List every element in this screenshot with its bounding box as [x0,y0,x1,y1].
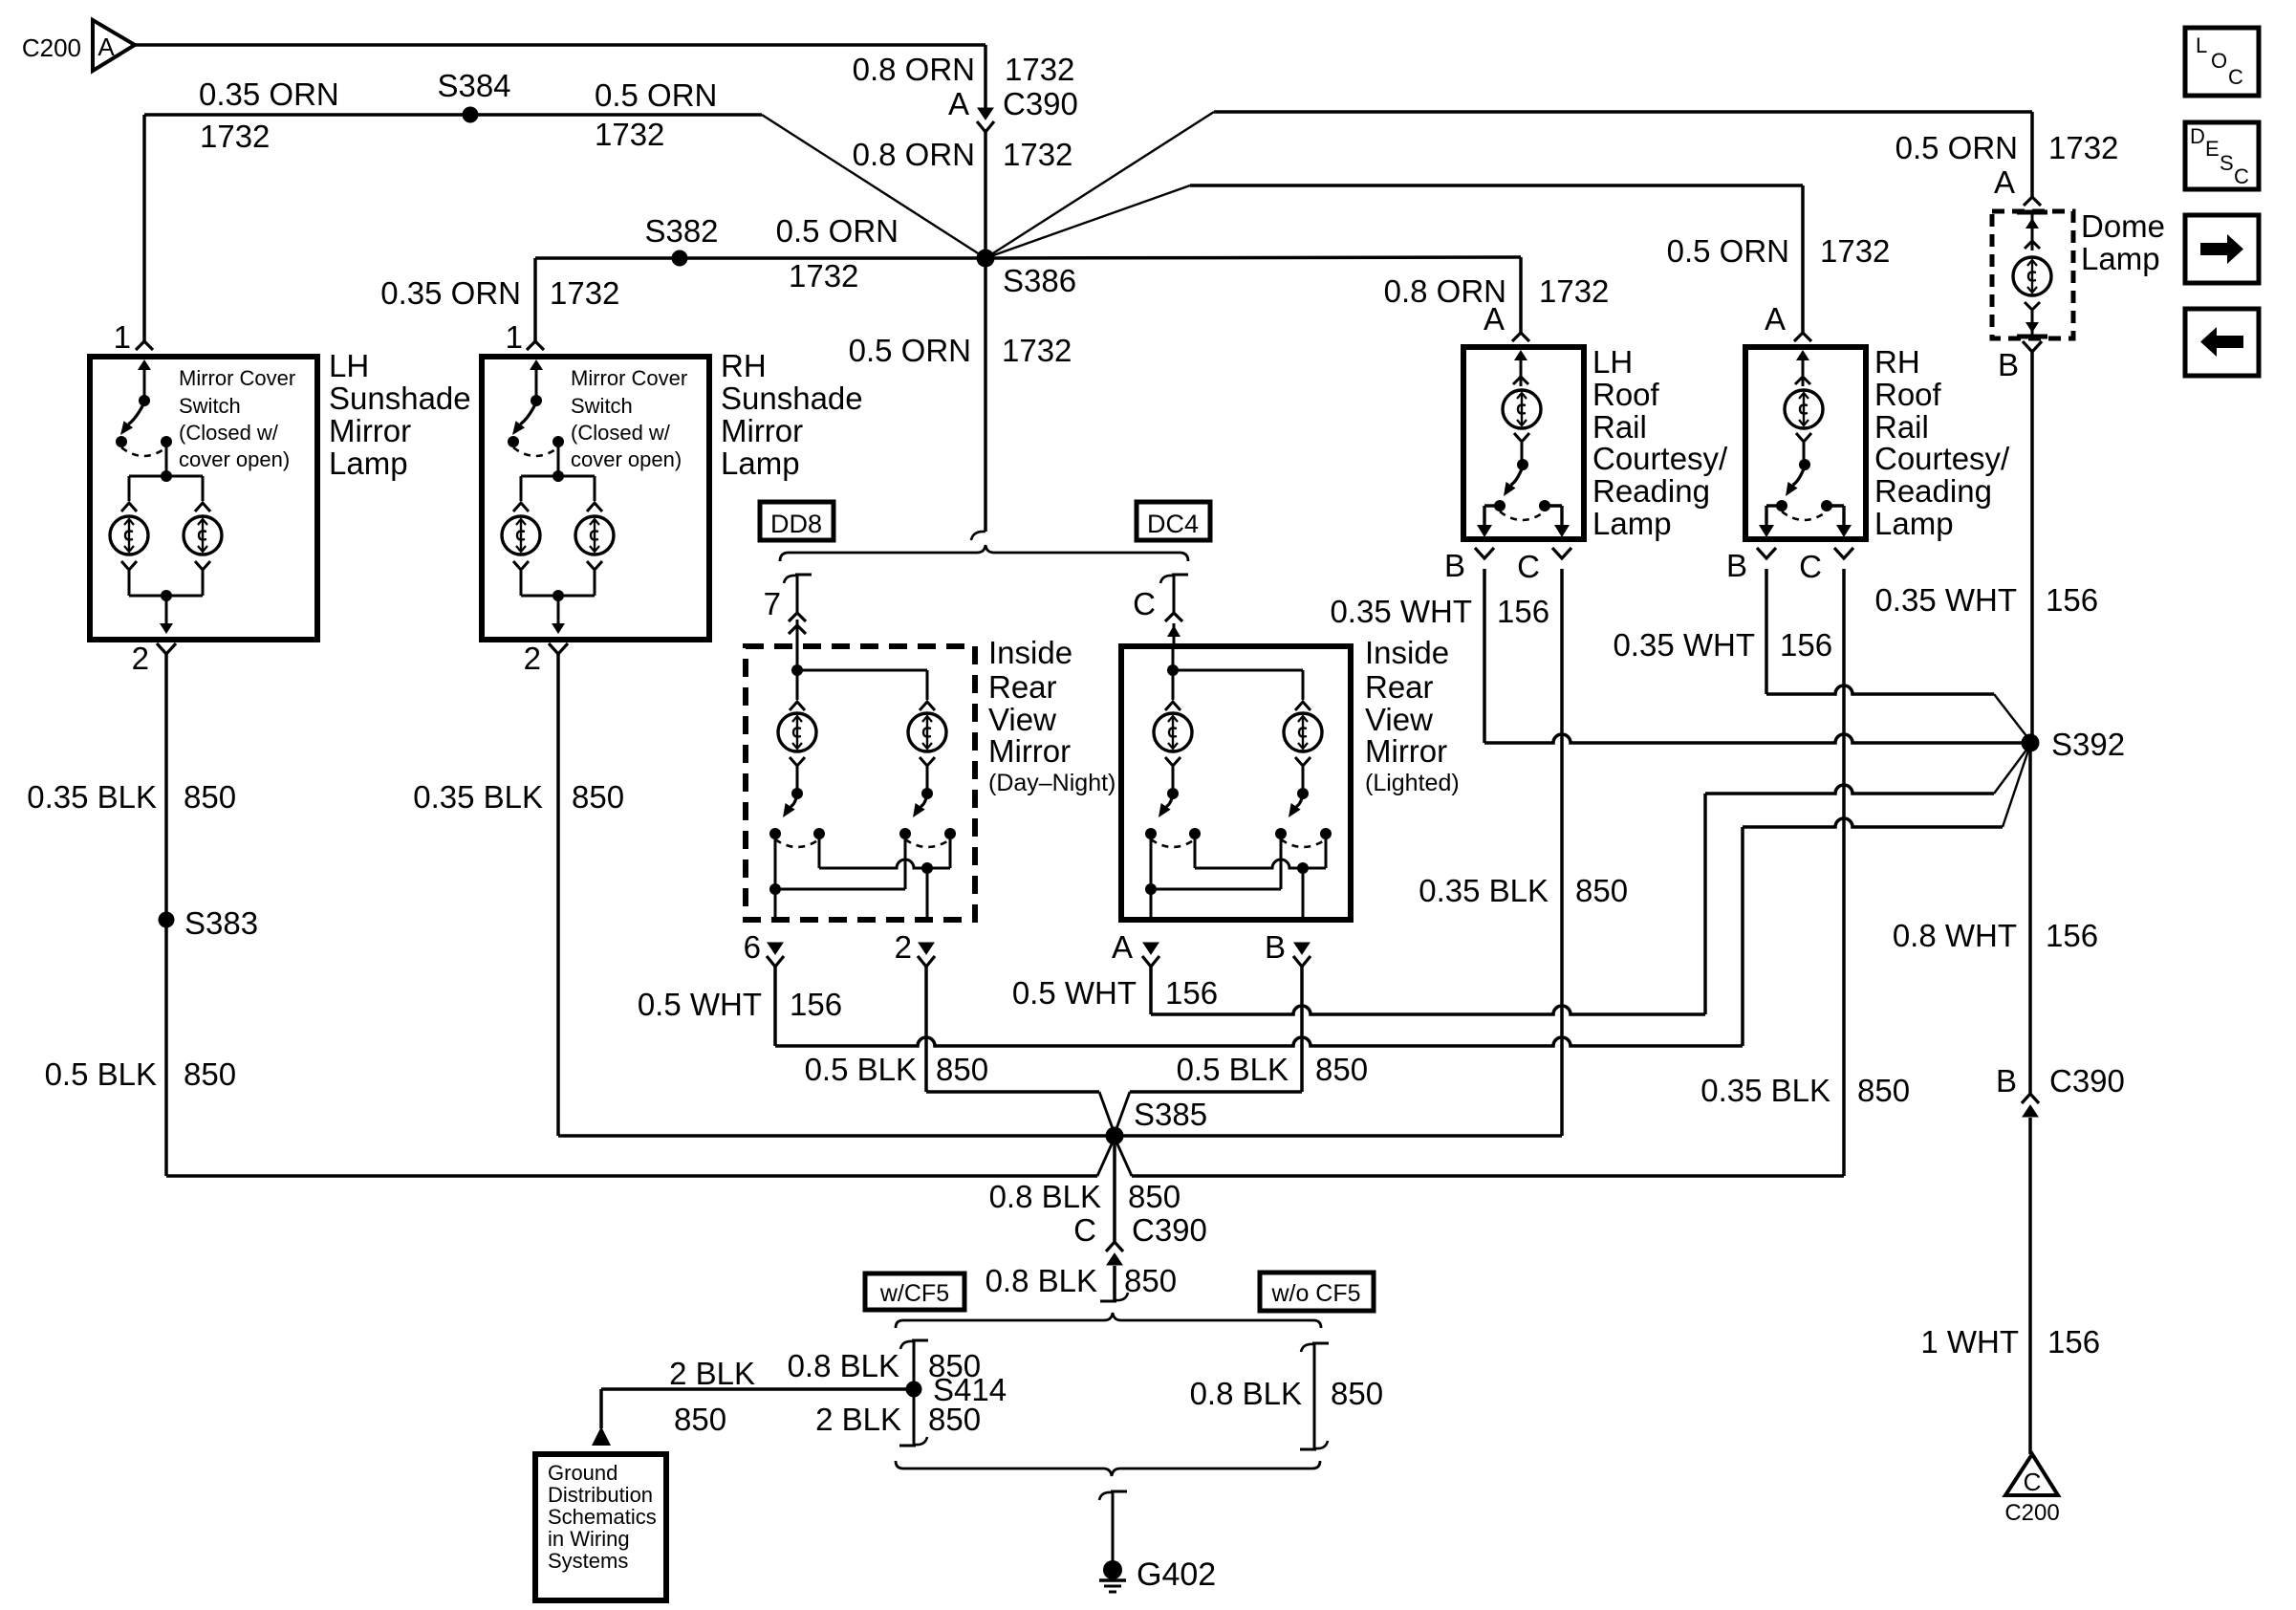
connector dome lamp pin A [1994,164,2041,206]
svg-text:G402: G402 [1137,1556,1216,1593]
svg-text:0.5 ORN: 0.5 ORN [1895,130,2018,165]
svg-text:0.35 BLK: 0.35 BLK [413,779,543,815]
svg-text:0.8 BLK: 0.8 BLK [788,1348,899,1383]
svg-text:C: C [2228,65,2243,89]
switch right (Lighted) [1275,757,1332,847]
label 0.8 BLK 850 (lower) [986,1263,1177,1298]
svg-text:LH: LH [329,348,369,383]
svg-text:0.5 BLK: 0.5 BLK [805,1052,917,1087]
svg-text:0.8 ORN: 0.8 ORN [853,52,975,87]
lamp bulb left (RH) [502,516,540,555]
label Inside Rear View Mirror (Lighted) [1365,635,1460,796]
svg-text:(Closed w/: (Closed w/ [571,421,671,445]
svg-text:S392: S392 [2051,727,2125,762]
component box RH Sunshade Mirror Lamp [482,357,709,640]
wire 0.35 BLK 850 bus S385 to RH roof C [1115,1138,1844,1176]
connector pin 2 LH sunshade [132,641,176,676]
svg-text:Mirror Cover: Mirror Cover [571,366,687,390]
connector C200 pin C (page-out triangle) [2005,1454,2058,1496]
wire BLK 850 bus RH sunshade to LH roof C through S385 [558,1134,1562,1138]
svg-text:1732: 1732 [550,275,619,311]
label 1 WHT 156 [1920,1324,2100,1360]
svg-text:Rail: Rail [1874,409,1929,445]
label Dome Lamp [2081,208,2165,276]
splice S384 [463,107,479,123]
svg-text:850: 850 [674,1402,726,1437]
svg-text:S383: S383 [184,905,258,941]
connector DC4 pin C lead-in [1133,575,1188,646]
svg-text:Rail: Rail [1592,409,1647,445]
svg-text:1732: 1732 [2048,130,2118,165]
wire 0.8 ORN 1732 from C390-A to S386 [984,129,987,258]
label RH Sunshade Mirror Lamp [721,348,863,481]
svg-text:0.35 ORN: 0.35 ORN [380,275,521,311]
svg-text:Lamp: Lamp [329,446,408,481]
svg-text:0.8 BLK: 0.8 BLK [1190,1376,1302,1411]
label A C390 [948,86,1078,121]
svg-text:A: A [1765,301,1786,337]
svg-text:0.5 ORN: 0.5 ORN [849,333,971,368]
svg-text:850: 850 [928,1402,981,1437]
switch left (Day-Night) [769,757,825,847]
wire 0.8 WHT 156 from S392 to C390-B [2028,743,2032,1094]
component box LH Roof Rail Courtesy/Reading Lamp [1463,347,1584,539]
svg-text:0.8 BLK: 0.8 BLK [989,1179,1101,1214]
svg-text:A: A [1112,929,1133,965]
svg-text:850: 850 [1331,1376,1383,1411]
connector DD8 pin 7 lead-in [764,575,812,646]
svg-text:Rear: Rear [1365,669,1434,705]
wire stub w/o CF5: 0.8 BLK 850 [1300,1343,1329,1449]
connector C390 pin C [1106,1242,1123,1265]
wire: feed splits to lamps (Lighted) [1165,646,1310,710]
ground G402 [1099,1560,1126,1592]
switch (RH) [1776,433,1832,520]
svg-text:Reading: Reading [1874,473,1992,509]
svg-text:RH: RH [1874,344,1920,380]
wire stub w/CF5: 0.8 BLK / 2 BLK 850 with splice S414 [899,1340,928,1446]
text: Mirror Cover Switch (RH) [571,366,687,471]
wire 0.5 WHT 156 from DC4 pin A to S392 [1151,745,2030,1014]
connector pin 1 RH sunshade [527,341,544,350]
svg-text:RH: RH [721,348,767,383]
connector DD8 pin 6 [744,929,784,967]
label 0.35 WHT 156 (dome B) [1874,582,2098,618]
connector pin 1 LH sunshade [136,341,153,350]
label S385 [1134,1097,1207,1132]
label 0.35 BLK 850 (LH) [27,779,236,815]
svg-text:0.35 WHT: 0.35 WHT [1330,594,1472,629]
label 0.5 ORN 1732 (down) [849,333,1072,368]
svg-text:S386: S386 [1003,263,1076,298]
label LH Sunshade Mirror Lamp [329,348,471,481]
label 0.5 BLK 850 (pin 2) [805,1052,988,1087]
label RH Roof Rail Courtesy/Reading Lamp [1874,344,2010,541]
text: Mirror Cover Switch (LH) [179,366,295,471]
lamp exit (dome) [2017,302,2047,337]
svg-text:156: 156 [2047,1324,2100,1360]
component box Ground Distribution Schematics in Wiring Systems [535,1454,666,1600]
wire 0.8 BLK 850 from S385 to C390-C [1113,1136,1116,1242]
svg-text:(Lighted): (Lighted) [1365,770,1460,796]
label 0.35 BLK 850 (RH) [413,779,624,815]
svg-text:LH: LH [1592,344,1633,380]
svg-text:2: 2 [895,929,912,965]
svg-text:850: 850 [1857,1073,1910,1108]
svg-text:Schematics: Schematics [548,1505,657,1529]
switch: mirror cover switch (LH) [116,359,172,456]
label 0.8 ORN 1732 (above C390) [853,52,1075,87]
svg-text:E: E [2205,137,2220,161]
svg-text:Switch: Switch [571,394,633,418]
legend box LOC [2185,28,2259,96]
svg-text:C390: C390 [2049,1063,2125,1099]
label 0.35 ORN 1732 [380,275,619,311]
component box Inside Rear View Mirror (Lighted) [1121,646,1351,920]
svg-text:L: L [2196,33,2207,57]
svg-text:1732: 1732 [200,119,270,154]
label 0.8 ORN 1732 (below C390) [853,137,1073,172]
wire 0.5 BLK 850 from DC4 pin B to S385 [1115,966,1302,1134]
svg-text:Mirror: Mirror [988,733,1071,769]
lamp bulb left (Lighted) [1154,713,1192,751]
connector DC4 pin B [1265,929,1310,967]
svg-text:Distribution: Distribution [548,1483,653,1507]
brace grouping CF5 alternatives (top) [896,1313,1321,1328]
lamp feed arrow (RH) [1795,350,1810,386]
lamp bulb left (LH) [110,516,148,555]
svg-text:A: A [1994,164,2015,200]
wire 0.5 WHT 156 from DD8 pin 6 to S392 [775,745,2030,1046]
svg-text:Ground: Ground [548,1461,617,1485]
component box Inside Rear View Mirror (Day-Night) [746,646,975,920]
svg-text:Lamp: Lamp [721,446,800,481]
label 0.5 WHT 156 (pin 6) [638,987,842,1022]
connector pins B and C (RH roof rail) [1726,548,1853,584]
svg-text:Sunshade: Sunshade [721,381,863,416]
svg-text:0.8 WHT: 0.8 WHT [1893,918,2017,953]
label 2 BLK 850 (horizontal) [669,1356,755,1437]
svg-text:156: 156 [1497,594,1549,629]
connector dome lamp pin B [1998,341,2042,382]
label 0.8 ORN 1732 (LH roof) [1384,273,1610,309]
svg-text:B: B [1444,548,1465,583]
svg-text:850: 850 [184,1056,236,1092]
svg-text:0.5 WHT: 0.5 WHT [638,987,762,1022]
label 0.5 BLK 850 (LH) [45,1056,236,1092]
label S414 [933,1372,1007,1407]
svg-text:0.5 BLK: 0.5 BLK [45,1056,157,1092]
wire: lamps to pin 2 (LH) [121,561,210,634]
wire 0.8 ORN 1732 from C200-A to C390-A [135,45,986,116]
svg-text:1: 1 [114,319,131,355]
lamp bulb right (LH) [184,516,222,555]
label Inside Rear View Mirror (Day-Night) [988,635,1116,796]
lamp bulb right (Lighted) [1284,713,1322,751]
svg-text:850: 850 [1128,1179,1180,1214]
svg-text:w/CF5: w/CF5 [879,1280,949,1307]
svg-text:S384: S384 [437,68,510,103]
label C C390 [1073,1212,1207,1248]
svg-text:1732: 1732 [1820,233,1890,269]
splice S392 [2022,734,2040,752]
svg-text:B: B [1998,347,2019,382]
lamp bulb left (Day-Night) [778,713,816,751]
connector C200 pin A (page-in triangle) [93,20,135,71]
wire: switch to lamps (LH) [121,442,210,511]
svg-text:Reading: Reading [1592,473,1710,509]
svg-text:850: 850 [572,779,624,815]
wire 2 BLK 850 from S414 to ground schematic ref [601,1389,914,1428]
svg-text:DD8: DD8 [770,510,822,538]
connector DC4 pin A [1112,929,1159,967]
svg-text:cover open): cover open) [179,447,290,471]
wire: pin leads (Lighted) [1151,834,1303,920]
brace grouping DD8/DC4 connectors [780,545,1188,561]
svg-text:C390: C390 [1003,86,1078,121]
connector C390 pin B [2022,1094,2039,1117]
splice S386 [977,250,995,268]
label 0.5 WHT 156 (pin A) [1012,975,1218,1011]
splice S383 [159,912,175,928]
label 0.5 ORN 1732 [776,213,899,294]
label B C390 [1996,1063,2125,1099]
wire 0.35 BLK 850 from RH roof rail C to S385 bus [1842,569,1846,1176]
component box Dome Lamp (dashed) [1992,211,2073,338]
lamp feed arrow (LH) [1513,350,1528,386]
splice S385 [1106,1127,1124,1145]
svg-text:A: A [948,86,969,121]
svg-text:0.35 ORN: 0.35 ORN [199,76,339,112]
wire: pin leads (Day-Night) [775,834,927,920]
svg-text:0.5 WHT: 0.5 WHT [1012,975,1137,1011]
svg-text:S: S [2220,151,2234,175]
wire: lamps to pin 2 (RH) [513,561,602,634]
wire 1 WHT 156 from C390-B to C200-C [2028,1118,2032,1454]
label S383 [184,905,258,941]
svg-text:(Day–Night): (Day–Night) [988,770,1116,796]
switch right (Day-Night) [899,757,956,847]
wire 0.8 BLK 850 below C390-C [1100,1266,1128,1301]
svg-text:Systems: Systems [548,1549,628,1573]
svg-text:850: 850 [936,1052,988,1087]
svg-text:0.5 BLK: 0.5 BLK [1177,1052,1289,1087]
svg-text:Mirror: Mirror [1365,733,1447,769]
svg-text:0.8 BLK: 0.8 BLK [986,1263,1097,1298]
svg-text:B: B [1265,929,1286,965]
svg-text:B: B [1996,1063,2017,1099]
label LH Roof Rail Courtesy/Reading Lamp [1592,344,1728,541]
label S384 [437,68,510,103]
label G402 [1137,1556,1216,1593]
svg-text:View: View [1365,702,1433,737]
label 0.35 BLK 850 (RH C) [1700,1073,1910,1108]
svg-text:1 WHT: 1 WHT [1920,1324,2019,1360]
svg-text:DC4: DC4 [1147,510,1199,538]
lamp bulb right (RH) [575,516,614,555]
connector DD8 pin 2 [895,929,935,967]
wire 0.5 BLK 850 bus LH sunshade to S385 [166,1138,1115,1176]
wire 0.5 ORN 1732 S386 to dome lamp A [986,112,2032,258]
wire 0.8 ORN 1732 S386 to LH roof rail lamp A [986,257,1521,333]
svg-text:2 BLK: 2 BLK [815,1402,901,1437]
wire 0.5 ORN 1732 S386 to RH roof rail lamp A [986,185,1803,333]
svg-text:156: 156 [2046,582,2098,618]
component box LH Sunshade Mirror Lamp [90,357,317,640]
wire 0.35 BLK 850 from RH sunshade pin 2 to S385 bus [556,654,560,1136]
component box RH Roof Rail Courtesy/Reading Lamp [1745,347,1866,539]
svg-text:850: 850 [1315,1052,1368,1087]
svg-text:7: 7 [764,586,781,621]
wire 0.5 ORN 1732 S386 down to DD8/DC4 brace [984,258,987,532]
svg-text:0.5 ORN: 0.5 ORN [776,213,899,249]
label 0.8 BLK 850 (w/o CF5) [1190,1376,1383,1411]
svg-text:Dome: Dome [2081,208,2165,244]
svg-text:1732: 1732 [1005,52,1074,87]
svg-text:0.35 BLK: 0.35 BLK [1419,873,1549,908]
lamp bulb right (Day-Night) [908,713,946,751]
svg-text:Sunshade: Sunshade [329,381,471,416]
wire: contact links (Lighted) [1145,834,1326,895]
svg-text:A: A [97,33,115,61]
svg-text:1732: 1732 [789,258,858,294]
svg-text:850: 850 [1575,873,1628,908]
wire to G402 [1099,1491,1127,1562]
label 0.5 BLK 850 (pin B) [1177,1052,1368,1087]
label 0.35 WHT 156 (LH B) [1330,594,1549,629]
wire 0.35 WHT 156 from dome lamp B to S392 [2030,352,2034,743]
svg-text:w/o CF5: w/o CF5 [1270,1280,1360,1307]
label box w/o CF5 [1260,1273,1374,1311]
svg-text:B: B [1726,548,1747,583]
svg-text:2: 2 [132,641,149,676]
label 0.5 ORN 1732 (RH roof) [1667,233,1891,269]
svg-text:Mirror: Mirror [721,413,803,448]
label 0.35 ORN 1732 [199,76,339,154]
wire 0.35 WHT 156 from RH roof rail B to S392 [1766,569,2030,741]
label box w/CF5 [865,1273,964,1310]
label 0.8 WHT 156 [1893,918,2098,953]
wire: contacts to pins B/C (LH) [1477,506,1570,537]
svg-text:C: C [1133,586,1156,621]
lamp bulb (LH) [1503,390,1541,428]
svg-text:0.35 WHT: 0.35 WHT [1874,582,2017,618]
svg-text:1732: 1732 [1002,333,1072,368]
svg-text:Rear: Rear [988,669,1057,705]
svg-text:0.35 WHT: 0.35 WHT [1613,627,1755,663]
label 2 BLK 850 (w/CF5) [815,1402,981,1437]
svg-text:0.5 ORN: 0.5 ORN [595,77,717,113]
label S382 [644,213,718,249]
svg-text:1732: 1732 [1539,273,1609,309]
svg-text:in Wiring: in Wiring [548,1527,630,1551]
label S392 [2051,727,2125,762]
switch (LH) [1494,433,1550,520]
svg-text:D: D [2190,124,2205,148]
svg-text:2 BLK: 2 BLK [669,1356,755,1391]
label 0.5 ORN 1732 (dome) [1895,130,2119,165]
switch: mirror cover switch (RH) [508,359,564,456]
svg-text:Courtesy/: Courtesy/ [1592,441,1728,476]
wire 0.35/0.5 BLK 850 from LH sunshade pin 2 to S385 bus [164,654,168,1176]
svg-text:Lamp: Lamp [2081,241,2160,276]
svg-text:1: 1 [506,319,523,355]
reference triangle to Ground Distribution Schematics [592,1426,611,1446]
connector ID box DC4 [1137,502,1210,540]
svg-text:C: C [2234,164,2249,188]
svg-text:6: 6 [744,929,761,965]
svg-text:Switch: Switch [179,394,241,418]
svg-text:2: 2 [524,641,541,676]
label 0.8 BLK 850 (w/CF5) [788,1348,981,1383]
connector RH roof rail pin A [1765,301,1811,341]
pin 1 label (RH) [506,319,523,355]
legend box left arrow [2185,309,2259,376]
svg-text:Mirror: Mirror [329,413,411,448]
svg-text:Inside: Inside [988,635,1072,670]
svg-text:Lamp: Lamp [1874,506,1954,541]
label 0.8 BLK 850 [989,1179,1180,1214]
wire 0.5 BLK 850 from DD8 pin 2 to S385 [926,966,1115,1134]
svg-text:C: C [1799,549,1822,584]
svg-text:0.8 ORN: 0.8 ORN [853,137,975,172]
svg-text:156: 156 [1165,975,1218,1011]
svg-text:A: A [1484,301,1505,337]
connector C390 pin A [977,108,994,132]
label C200 (bottom) [2004,1500,2059,1526]
wire: feed splits to lamps (Day-Night) [790,646,935,710]
wire 0.35 BLK 850 from LH roof rail C to S385 bus [1560,569,1564,1136]
svg-text:C200: C200 [22,33,81,62]
connector pin 2 RH sunshade [524,641,568,676]
switch left (Lighted) [1145,757,1201,847]
connector LH roof rail pin A [1484,301,1529,341]
label S386 [1003,263,1076,298]
brace grouping CF5 alternatives (bottom) [896,1461,1320,1476]
svg-text:C: C [2024,1468,2042,1496]
svg-text:1732: 1732 [1003,137,1072,172]
svg-text:C: C [1073,1212,1096,1248]
legend box right arrow [2185,215,2259,283]
connector ID box DD8 [760,502,834,540]
svg-text:C390: C390 [1132,1212,1207,1248]
label 0.35 WHT 156 (RH B) [1613,627,1832,663]
wire 0.35/0.5 ORN 1732 via S382 to RH sunshade mirror lamp pin 1 [535,258,986,341]
connector pins B and C (LH roof rail) [1444,548,1571,584]
wire: contacts to pins B/C (RH) [1759,506,1852,537]
svg-text:0.35 BLK: 0.35 BLK [27,779,157,815]
label C200 [22,33,81,62]
svg-text:0.35 BLK: 0.35 BLK [1700,1073,1830,1108]
svg-text:cover open): cover open) [571,447,682,471]
wire 0.35 WHT 156 from LH roof rail B to S392 [1484,569,2030,743]
svg-text:C: C [1517,549,1540,584]
wire: contact links (Day-Night) [769,834,950,895]
svg-text:Mirror Cover: Mirror Cover [179,366,295,390]
lamp bulb (dome) [2013,257,2051,295]
lamp bulb (RH) [1785,390,1823,428]
svg-text:156: 156 [2046,918,2098,953]
svg-text:156: 156 [1780,627,1832,663]
wire 0.35/0.5 ORN 1732 via S384 to S386 and LH sunshade mirror lamp pin 1 [144,115,986,341]
svg-text:1732: 1732 [595,117,664,152]
svg-text:850: 850 [1124,1263,1177,1298]
svg-text:Roof: Roof [1874,377,1942,412]
svg-text:Lamp: Lamp [1592,506,1672,541]
legend box DESC [2185,122,2259,189]
splice S382 [672,250,688,267]
svg-text:Courtesy/: Courtesy/ [1874,441,2010,476]
